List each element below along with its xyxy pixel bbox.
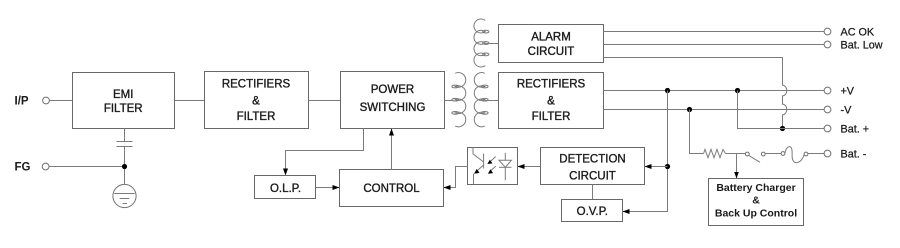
- svg-text:&: &: [547, 95, 555, 107]
- svg-text:Bat. +: Bat. +: [841, 123, 870, 135]
- wire rectifiers to power switching: [309, 100, 341, 102]
- node -V terminal: [824, 106, 831, 113]
- transformer T1 secondary (main) winding: [474, 73, 488, 127]
- wire -V rail: [604, 109, 824, 111]
- svg-text:POWER: POWER: [371, 84, 414, 96]
- control block: [340, 170, 444, 207]
- svg-text:RECTIFIERS: RECTIFIERS: [222, 78, 291, 90]
- node FG terminal: [42, 163, 49, 170]
- wire secondary to rectifiers output: [485, 100, 499, 102]
- fuse / circuit breaker: [781, 147, 808, 163]
- node Bat.- terminal: [824, 150, 831, 157]
- svg-text:I/P: I/P: [15, 96, 29, 108]
- svg-text:SWITCHING: SWITCHING: [360, 102, 426, 114]
- arrow into OLP: [283, 169, 288, 176]
- wire EMI to rectifiers: [175, 100, 205, 102]
- svg-text:FG: FG: [15, 162, 31, 174]
- arrow into detection circuit: [645, 164, 652, 169]
- wire FG to junction: [49, 166, 125, 168]
- node junction +V / sense rail: [665, 88, 670, 93]
- rectifiers and filter block (input side): [205, 72, 309, 129]
- wire sense rail to OVP: [623, 91, 668, 212]
- wire power switching to OLP: [286, 129, 364, 175]
- wire bat+ branch from +V: [738, 91, 824, 129]
- node Bat. Low terminal: [824, 41, 831, 48]
- svg-text:&: &: [752, 195, 760, 207]
- node FG junction dot: [122, 164, 127, 169]
- svg-text:O.V.P.: O.V.P.: [577, 206, 608, 218]
- transformer T1 auxiliary winding (alarm): [474, 19, 489, 67]
- wire alarm to battery plus rail (with crossover hops): [604, 58, 787, 129]
- wire alarm to Bat. Low: [604, 44, 824, 46]
- svg-text:-V: -V: [841, 104, 853, 116]
- rectifiers and filter block (output side): [499, 73, 604, 129]
- svg-text:CIRCUIT: CIRCUIT: [528, 46, 575, 58]
- svg-text:RECTIFIERS: RECTIFIERS: [517, 79, 586, 91]
- wire aux winding to alarm circuit: [485, 43, 499, 45]
- svg-text:&: &: [252, 95, 260, 107]
- OVP block: [562, 200, 623, 222]
- svg-text:FILTER: FILTER: [532, 111, 571, 123]
- arrow into control from OLP: [333, 185, 340, 190]
- node junction +V / bat+ rail: [735, 88, 740, 93]
- ground earth symbol: [113, 184, 136, 207]
- wire resistor to switch: [726, 153, 746, 155]
- switch S1: [745, 152, 765, 162]
- svg-text:CIRCUIT: CIRCUIT: [569, 170, 616, 182]
- wire OLP to control: [316, 187, 340, 189]
- svg-text:+V: +V: [841, 85, 855, 97]
- arrow into control: [444, 185, 451, 190]
- wire detection to optocoupler: [518, 166, 541, 168]
- svg-text:FILTER: FILTER: [237, 111, 276, 123]
- arrow into OVP: [623, 209, 630, 214]
- arrow into power switching: [389, 129, 394, 136]
- resistor R (charge path): [704, 149, 726, 157]
- svg-text:ALARM: ALARM: [531, 32, 571, 44]
- EMI filter block: [73, 73, 175, 129]
- svg-text:FILTER: FILTER: [104, 103, 143, 115]
- detection circuit block: [541, 148, 645, 185]
- battery charger block: [709, 179, 804, 226]
- capacitor C (Y-cap to FG): [117, 142, 133, 147]
- svg-text:AC OK: AC OK: [841, 26, 875, 38]
- svg-text:O.L.P.: O.L.P.: [270, 183, 301, 195]
- wire alarm to AC OK: [604, 31, 824, 33]
- wire EMI bottom to capacitor: [124, 129, 126, 142]
- svg-text:EMI: EMI: [113, 89, 133, 101]
- arrow into optocoupler: [518, 164, 525, 169]
- svg-text:Back Up Control: Back Up Control: [715, 208, 797, 220]
- arrow into battery charger: [734, 172, 739, 179]
- wire +V rail: [604, 90, 824, 92]
- svg-text:DETECTION: DETECTION: [559, 154, 625, 166]
- wire optocoupler to control: [444, 167, 468, 188]
- node Bat.+ terminal: [824, 125, 831, 132]
- node junction alarm/bat+: [780, 126, 785, 131]
- power switching block: [341, 72, 445, 129]
- wire junction to battery charger: [736, 154, 738, 179]
- wire detection to OVP: [592, 185, 594, 200]
- node I/P terminal: [43, 97, 50, 104]
- wire switch to breaker: [765, 153, 781, 155]
- OLP block: [255, 176, 316, 199]
- node +V terminal: [824, 87, 831, 94]
- wire -V to battery branch resistor: [690, 110, 704, 154]
- svg-text:Bat. -: Bat. -: [841, 148, 867, 160]
- wire control to power switching: [391, 129, 393, 170]
- optocoupler U1: [468, 148, 518, 185]
- wire sense to detection circuit: [645, 166, 668, 168]
- wire capacitor to ground: [124, 147, 126, 194]
- node AC OK terminal: [824, 28, 831, 35]
- svg-text:CONTROL: CONTROL: [363, 183, 420, 195]
- wire breaker to Bat.- terminal: [808, 153, 824, 155]
- transformer T1 primary winding: [452, 73, 466, 127]
- node junction sense/detection: [665, 164, 670, 169]
- svg-text:Bat. Low: Bat. Low: [841, 39, 883, 51]
- wire power switching to transformer primary: [445, 100, 454, 102]
- svg-text:Battery Charger: Battery Charger: [716, 182, 795, 194]
- node junction -V / battery branch: [687, 107, 692, 112]
- alarm circuit block: [499, 25, 604, 63]
- wire I/P to EMI filter: [49, 100, 73, 102]
